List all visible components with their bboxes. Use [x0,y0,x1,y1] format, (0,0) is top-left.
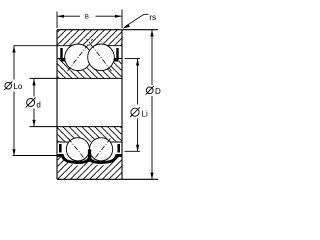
Ød arrow bottom [32,120,35,127]
bearing left face [56,30,58,180]
outer ring top band hatch [57,30,122,46]
ØD arrow bottom [150,173,153,180]
ØLi arrow top [136,59,139,66]
B extension line left [56,12,58,29]
outer ring bottom band hatch [57,156,122,180]
label ØLi [130,107,148,119]
ØLo arrow bottom [12,149,15,156]
contact line top-right ball [87,39,112,71]
bottom-right ball scallop erase [86,150,117,165]
label ØLo [4,81,23,91]
contact line top-left ball [68,39,93,71]
Ød dimension line [33,79,35,97]
svg-text:d: d [36,100,40,109]
label Ød [26,98,41,110]
cage mark bottom-left [59,144,62,153]
outer land line top (ØLo extension) [14,45,123,47]
cage cup bottom-right [90,155,122,162]
contact line bottom-left ball [69,139,88,163]
ball bottom-right [90,138,113,161]
outer land line bottom (ØLo extension) [13,155,123,157]
ØLo arrow top [12,46,15,53]
ØLi arrow bottom [136,145,139,152]
B dimension line [57,15,80,17]
contact line bottom-right ball [92,139,111,163]
ball top-left [65,44,92,71]
Ød arrow top [32,79,35,86]
svg-text:rs: rs [149,12,156,22]
svg-text:Lo: Lo [13,82,22,91]
svg-text:B: B [85,14,89,21]
inner ring top band hatch [57,59,122,79]
svg-text:D: D [155,87,161,96]
bottom-left ball scallop erase [62,150,93,165]
ØD dimension line [151,30,153,85]
label ØD [146,86,161,96]
cage mark top-left [61,48,65,60]
ØLi extension dash top [125,58,141,60]
cage cup bottom-left [57,155,89,162]
bore line bottom (Ød extension) [30,126,123,128]
ball bottom-left [66,138,89,161]
inner shoulder line top [57,58,122,60]
inner shoulder line bottom [57,141,122,143]
bearing top edge + ØD top extension [57,29,158,31]
svg-text:Li: Li [142,110,148,119]
B arrow right [115,15,122,18]
ball top-right [88,44,115,71]
cage bar bottom-center [88,149,91,162]
inner ring bottom band hatch [57,127,122,142]
cage mark bottom-right [117,144,120,153]
cage mark top-right [114,48,118,60]
B extension line right [121,10,123,29]
bearing bottom edge + ØD bottom extension [57,178,158,180]
ØD arrow top [150,30,153,37]
ØLo dimension line [13,46,15,79]
ØLi dimension line [137,59,139,105]
B arrow left [57,15,64,18]
bore line top (Ød extension) [30,77,123,79]
bearing right face [121,30,123,180]
rs leader arrow [122,24,130,28]
ØLi extension dash bottom [125,150,141,152]
rs leader [125,14,149,27]
